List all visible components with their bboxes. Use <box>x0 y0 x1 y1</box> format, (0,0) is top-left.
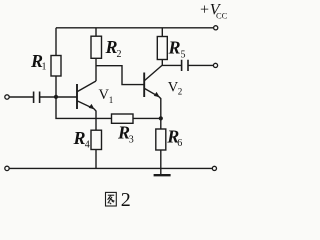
wire top rail <box>56 27 213 29</box>
label R2 <box>105 37 122 60</box>
wire R5 bottom lead <box>161 60 163 66</box>
label R4 <box>73 128 90 150</box>
wire R4 bottom lead <box>95 150 97 169</box>
node emitter junction V2 <box>159 116 163 120</box>
wire interstage coupling <box>96 66 144 85</box>
wire R3 to emitter node <box>133 117 161 119</box>
svg-text:R: R <box>73 128 86 148</box>
node base junction <box>54 95 58 99</box>
svg-text:4: 4 <box>85 139 90 150</box>
resistor R6 <box>156 129 166 150</box>
wire capacitor to base node <box>40 96 77 98</box>
wire capacitor to output terminal <box>188 64 213 66</box>
wire feedback down and right <box>56 97 112 118</box>
wire input to capacitor <box>9 96 33 98</box>
node bottom-right terminal <box>212 166 216 170</box>
resistor R4 <box>91 130 102 149</box>
label R1 <box>30 51 47 73</box>
node input terminal <box>5 95 9 99</box>
label R5 <box>168 38 186 61</box>
wire R1 top lead <box>55 28 57 56</box>
capacitor C2 output <box>182 60 188 71</box>
svg-text:2: 2 <box>121 189 131 211</box>
svg-text:5: 5 <box>181 50 186 61</box>
transistor V1 <box>77 81 96 130</box>
svg-text:CC: CC <box>216 11 228 21</box>
resistor R3 <box>112 114 134 123</box>
svg-text:6: 6 <box>177 138 182 149</box>
ground <box>154 168 171 175</box>
wire R1 bottom lead <box>55 76 57 97</box>
wire R5 top lead <box>161 28 163 37</box>
wire R6 top lead <box>160 118 162 129</box>
wire collector node to output capacitor <box>162 64 182 66</box>
wire R2 top lead <box>95 28 97 36</box>
label +Vcc <box>199 2 228 21</box>
wire V1 collector to R2 <box>95 58 97 81</box>
resistor R5 <box>157 37 167 60</box>
resistor R2 <box>91 36 102 58</box>
svg-text:1: 1 <box>109 95 114 105</box>
node output terminal <box>213 63 217 67</box>
label caption 图 2 <box>106 189 131 211</box>
capacitor C1 input <box>34 92 40 104</box>
transistor V2 <box>144 65 162 118</box>
label R3 <box>117 122 134 145</box>
label V2 <box>168 80 183 97</box>
node VCC terminal <box>214 26 218 30</box>
svg-text:2: 2 <box>178 87 183 97</box>
svg-text:1: 1 <box>42 62 47 73</box>
svg-text:R: R <box>168 38 181 58</box>
label V1 <box>99 87 114 105</box>
wire bottom rail <box>9 167 212 169</box>
label R6 <box>166 127 182 149</box>
svg-text:3: 3 <box>129 134 134 145</box>
resistor R1 <box>51 56 61 77</box>
node bottom-left terminal <box>5 166 9 170</box>
svg-text:2: 2 <box>117 49 122 60</box>
wire R6 bottom lead <box>160 150 162 168</box>
